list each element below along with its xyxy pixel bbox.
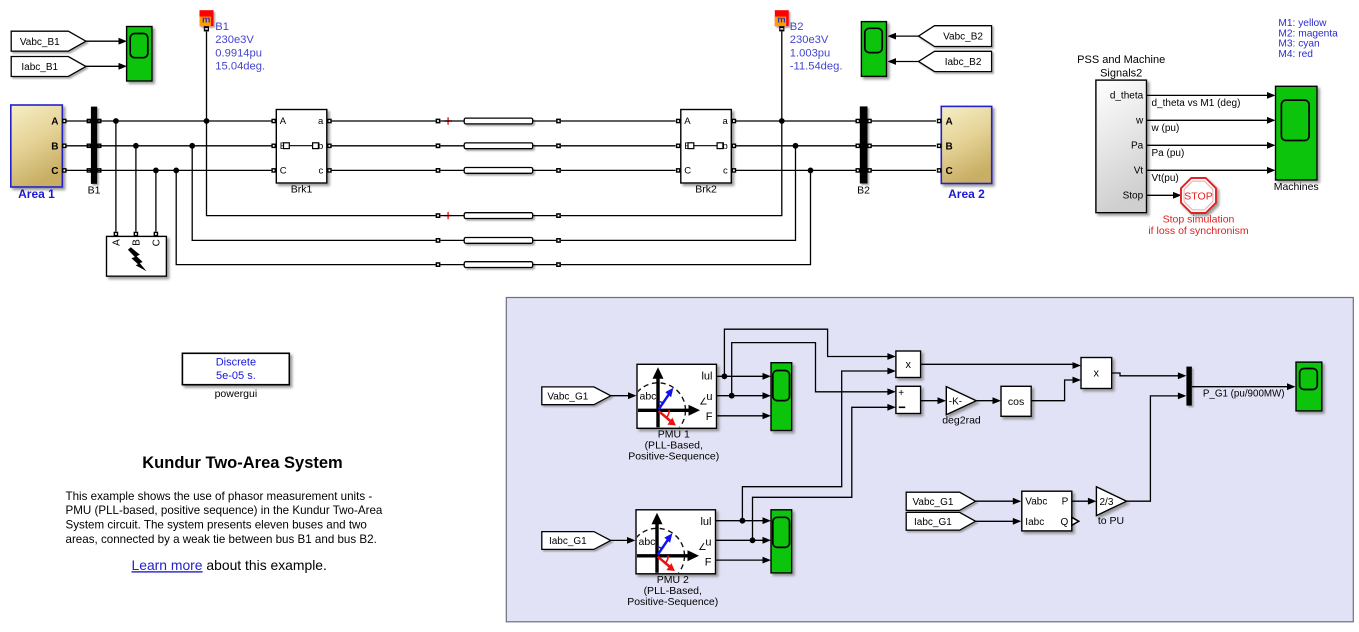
transmission line right port <box>556 238 561 243</box>
bus B2 port <box>856 168 861 173</box>
svg-text:c: c <box>723 166 728 177</box>
transmission line left port <box>436 168 441 173</box>
svg-text:powergui: powergui <box>215 388 258 400</box>
block Area 2 <box>941 106 991 183</box>
svg-text:Brk1: Brk1 <box>291 184 313 196</box>
Brk1 input port 1 <box>271 119 276 124</box>
wire sum to gain deg2rad <box>921 400 939 402</box>
svg-text:Vt(pu): Vt(pu) <box>1152 173 1179 184</box>
svg-text:Learn more about this example.: Learn more about this example. <box>132 557 327 573</box>
svg-text:Discrete: Discrete <box>216 357 256 369</box>
svg-text:x: x <box>1094 368 1100 380</box>
wire Brk1 b to line1 <box>332 145 436 147</box>
svg-text:C: C <box>684 166 691 177</box>
wire Iabc_B2 to scope <box>895 61 919 63</box>
wire mux to scope P_G1 <box>1192 386 1288 388</box>
wire fault C drop <box>155 170 157 231</box>
goto tag Vabc_B1 <box>11 31 86 51</box>
wire m B2 to phase a <box>781 31 783 121</box>
svg-text:Stop simulation: Stop simulation <box>1163 214 1235 226</box>
svg-text:15.04deg.: 15.04deg. <box>215 61 265 73</box>
wire Vabc_G1 to PQ block <box>976 500 1014 502</box>
svg-text:P: P <box>1062 497 1069 508</box>
wire PMU2 lul to product1 <box>742 371 888 521</box>
wire PMU2 F to scope <box>716 559 764 561</box>
svg-text:abc: abc <box>640 391 657 403</box>
svg-text:2/3: 2/3 <box>1100 497 1114 508</box>
wire line1 b to Brk2 <box>561 145 676 147</box>
junction phase A fault <box>113 118 119 124</box>
svg-text:Vabc: Vabc <box>1025 497 1047 508</box>
svg-text:C: C <box>51 166 58 177</box>
Brk2 input port 2 <box>676 144 681 149</box>
svg-text:c: c <box>319 166 324 177</box>
svg-text:Machines: Machines <box>1274 181 1319 193</box>
block Brk2 <box>681 110 732 184</box>
bus B2 port <box>856 144 861 149</box>
svg-text:-11.54deg.: -11.54deg. <box>790 61 843 73</box>
goto tag Vabc_B2 <box>919 26 992 47</box>
svg-text:B: B <box>132 239 143 246</box>
svg-text:deg2rad: deg2rad <box>942 414 981 426</box>
Brk1 input port 2 <box>271 144 276 149</box>
svg-text:P_G1 (pu/900MW): P_G1 (pu/900MW) <box>1203 388 1285 399</box>
wire Brk1 a to line1 <box>332 120 436 122</box>
block cos <box>1001 386 1031 416</box>
gain 2/3 to PU <box>1096 487 1126 516</box>
junction PMU1 lul <box>722 373 728 379</box>
wire line1 c to Brk2 <box>561 169 676 171</box>
svg-text:C: C <box>280 166 287 177</box>
svg-text:x: x <box>905 359 911 371</box>
goto tag Iabc_G1 <box>542 532 611 550</box>
svg-text:Brk2: Brk2 <box>695 184 717 196</box>
svg-text:C: C <box>946 166 953 177</box>
svg-text:Iabc_G1: Iabc_G1 <box>549 536 587 547</box>
svg-text:STOP: STOP <box>1184 190 1212 202</box>
wire phase A Area1-B1-Brk1 <box>67 120 273 122</box>
block Brk1 <box>276 110 327 184</box>
port A of Area 1 <box>62 119 67 124</box>
wire through line <box>441 169 465 171</box>
gain deg2rad <box>946 387 976 415</box>
transmission line left port <box>436 213 441 218</box>
transmission line right port <box>556 213 561 218</box>
svg-text:Vabc_B1: Vabc_B1 <box>20 37 60 48</box>
svg-text:Vabc_G1: Vabc_G1 <box>912 497 953 508</box>
Brk2 output port 2 <box>732 144 737 149</box>
svg-text:A: A <box>112 239 123 246</box>
svg-text:PSS and Machine: PSS and Machine <box>1077 54 1165 66</box>
port C of Area 1 <box>62 168 67 173</box>
svg-text:B1: B1 <box>88 185 101 197</box>
wire PMU2 u to sum minus <box>753 407 889 540</box>
wire Vabc_G1 to PMU1 <box>611 395 629 397</box>
wire line2 b to B2 <box>561 146 796 241</box>
wire PSS Stop to STOP block <box>1147 194 1174 196</box>
svg-text:Vabc_G1: Vabc_G1 <box>547 391 588 402</box>
svg-text:Pa: Pa <box>1131 141 1144 152</box>
svg-text:M4: red: M4: red <box>1278 49 1313 60</box>
lightning bolt icon <box>128 247 147 271</box>
svg-text:a: a <box>318 116 324 127</box>
wire Brk2 a to B2 bus <box>736 120 858 122</box>
svg-text:m: m <box>777 14 785 25</box>
wire through line <box>441 120 465 122</box>
svg-text:1.003pu: 1.003pu <box>790 47 830 59</box>
port of m B2 <box>779 26 784 31</box>
wire Iabc_B1 to scope B1 <box>86 65 119 67</box>
svg-text:Iabc_G1: Iabc_G1 <box>914 517 952 528</box>
svg-text:230e3V: 230e3V <box>790 34 829 46</box>
junction c line2 <box>808 168 814 174</box>
wire PSS Pa to Machines scope <box>1147 144 1268 146</box>
transmission line segment <box>464 262 533 268</box>
svg-text:Iabc_B2: Iabc_B2 <box>945 57 982 68</box>
fault port C <box>154 232 159 237</box>
transmission line segment <box>464 168 533 174</box>
transmission line segment <box>464 118 533 124</box>
svg-text:A: A <box>280 116 287 127</box>
svg-text:A: A <box>946 117 953 128</box>
svg-text:w: w <box>1135 116 1144 127</box>
junction phase C fault <box>153 168 159 174</box>
transmission line right port <box>556 168 561 173</box>
scope PMU1 <box>771 363 792 431</box>
svg-text:∠: ∠ <box>699 397 708 408</box>
Brk2 output port 1 <box>732 119 737 124</box>
transmission line right port <box>556 262 561 267</box>
svg-text:C: C <box>152 239 163 246</box>
measurement block m B2 <box>775 10 789 26</box>
svg-text:0.9914pu: 0.9914pu <box>215 47 262 59</box>
wire Brk1 c to line1 <box>332 169 436 171</box>
wire through line <box>441 145 465 147</box>
wire PSS d_theta to Machines scope <box>1147 94 1268 96</box>
Brk2 input port 1 <box>676 119 681 124</box>
transmission line left port <box>436 238 441 243</box>
bus B1 port <box>87 168 92 173</box>
wire phase B Area1-B1-Brk1 <box>67 145 273 147</box>
svg-text:lul: lul <box>701 370 712 382</box>
svg-text:Signals2: Signals2 <box>1100 67 1142 79</box>
svg-text:B1: B1 <box>215 21 229 33</box>
svg-text:abc: abc <box>639 536 656 548</box>
wire through line <box>441 239 465 241</box>
junction a line2 <box>779 118 785 124</box>
panel PMU measurement subsystem area <box>506 298 1353 622</box>
wire PMU1 lul to product1 <box>724 329 888 376</box>
ports of Area 2 <box>937 119 942 124</box>
Brk1 output port 1 <box>327 119 332 124</box>
junction PMU2 u <box>750 537 756 543</box>
svg-text:Pa (pu): Pa (pu) <box>1152 148 1185 159</box>
svg-text:F: F <box>706 411 713 423</box>
svg-text:This example shows the use of: This example shows the use of phasor mea… <box>66 490 373 503</box>
svg-text:a: a <box>723 116 729 127</box>
svg-text:Q: Q <box>1061 517 1069 528</box>
wire gain to cos <box>976 400 993 402</box>
fault port B <box>134 232 139 237</box>
svg-text:if loss of synchronism: if loss of synchronism <box>1148 225 1249 237</box>
wire PMU1 u to scope <box>717 395 764 397</box>
block STOP simulation <box>1181 178 1216 213</box>
svg-text:areas, connected by a weak tie: areas, connected by a weak tie between b… <box>66 533 377 546</box>
junction phase B line2 <box>189 143 195 149</box>
bus bar B2 <box>860 106 868 183</box>
svg-text:Iabc_B1: Iabc_B1 <box>21 62 58 73</box>
wire line2 phase C branch <box>176 170 435 264</box>
Brk2 input port 3 <box>676 168 681 173</box>
wire PMU2 lul to scope <box>716 520 764 522</box>
measurement block m B1 <box>200 10 214 26</box>
wire fault B drop <box>135 146 137 232</box>
bus bar B1 <box>91 107 97 184</box>
wire Brk2 c to B2 bus <box>736 169 858 171</box>
wire through line <box>441 264 465 266</box>
Brk2 output port 3 <box>732 168 737 173</box>
goto tag Iabc_G1 power <box>906 512 975 530</box>
wire line2 c to B2 <box>561 170 811 264</box>
wire PSS Vt to Machines scope <box>1147 169 1268 171</box>
wire PMU1 u to sum plus <box>732 343 889 396</box>
transmission line segment <box>464 213 533 219</box>
scope Machines <box>1276 86 1318 180</box>
svg-text:d_theta: d_theta <box>1110 91 1144 102</box>
transmission line left port <box>436 262 441 267</box>
goto tag Iabc_B2 <box>919 51 992 71</box>
block product2 x <box>1081 358 1112 389</box>
block product1 x <box>896 351 921 378</box>
fault port A <box>114 232 119 237</box>
svg-text:5e-05 s.: 5e-05 s. <box>216 370 256 382</box>
transmission line segment <box>464 238 533 244</box>
port B of Area 1 <box>62 144 67 149</box>
svg-text:B: B <box>51 141 58 152</box>
svg-text:Positive-Sequence): Positive-Sequence) <box>627 596 718 608</box>
junction phase C line2 <box>173 168 179 174</box>
junction PMU2 lul <box>740 518 746 524</box>
svg-text:B2: B2 <box>790 21 804 33</box>
svg-text:B: B <box>946 141 953 152</box>
block PMU 2 <box>636 510 716 574</box>
svg-text:Iabc: Iabc <box>1025 517 1044 528</box>
transmission line left port <box>436 143 441 148</box>
goto tag Vabc_G1 power <box>906 492 975 510</box>
svg-text:∠: ∠ <box>698 542 707 553</box>
svg-text:System circuit. The system pre: System circuit. The system presents elev… <box>66 519 367 532</box>
wire phase C Area1-B1-Brk1 <box>67 169 273 171</box>
wire PSS w to Machines scope <box>1147 119 1268 121</box>
measurement + mark <box>444 117 451 124</box>
scope B2 signals <box>861 22 886 77</box>
Brk1 output port 2 <box>327 144 332 149</box>
goto tag Vabc_G1 <box>542 387 611 405</box>
svg-text:Stop: Stop <box>1123 191 1144 202</box>
goto tag Iabc_B1 <box>11 57 86 77</box>
block powergui <box>182 353 289 384</box>
wire PMU2 u to scope <box>716 539 764 541</box>
block PQ measurement <box>1022 491 1072 531</box>
svg-text:w (pu): w (pu) <box>1151 123 1180 134</box>
wire PMU1 F to scope <box>717 415 764 417</box>
svg-text:+: + <box>898 388 904 399</box>
svg-text:to PU: to PU <box>1098 515 1124 527</box>
unconnected port Q <box>1072 517 1079 525</box>
wire through line <box>441 215 465 217</box>
mux P_G1 <box>1186 367 1192 406</box>
wire PMU1 lul to scope <box>717 375 764 377</box>
transmission line left port <box>436 119 441 124</box>
svg-text:m: m <box>202 14 210 25</box>
wire B2 to Area2 B <box>872 145 937 147</box>
wire line2 a to B2 <box>561 121 782 216</box>
wire Vabc_B1 to scope B1 <box>86 40 119 42</box>
Brk1 input port 3 <box>271 168 276 173</box>
block sum <box>896 386 921 413</box>
block PSS and Machine Signals2 <box>1096 80 1147 213</box>
junction b line2 <box>793 143 799 149</box>
scope B1 signals <box>127 27 152 82</box>
block Area 1 <box>11 105 63 187</box>
wire Iabc_G1 to PMU2 <box>611 539 628 541</box>
port of m B1 <box>204 26 209 31</box>
bus B1 port <box>87 119 92 124</box>
wire line2 phase B branch <box>192 146 435 241</box>
scope P_G1 <box>1296 362 1322 411</box>
svg-text:Vabc_B2: Vabc_B2 <box>943 32 983 43</box>
block three-phase fault <box>107 236 167 276</box>
transmission line segment <box>464 143 533 149</box>
svg-text:Positive-Sequence): Positive-Sequence) <box>628 451 719 463</box>
svg-text:Kundur Two-Area System: Kundur Two-Area System <box>142 454 342 472</box>
junction phase B fault <box>133 143 139 149</box>
wire line2 phase A branch <box>207 121 436 216</box>
svg-text:Area 1: Area 1 <box>18 187 55 201</box>
measurement + mark <box>444 212 451 219</box>
wire cos to product2 <box>1031 380 1073 401</box>
transmission line right port <box>556 143 561 148</box>
svg-text:Vt: Vt <box>1134 166 1144 177</box>
transmission line right port <box>556 119 561 124</box>
scope PMU2 <box>771 510 792 573</box>
wire fault A drop <box>115 121 117 232</box>
svg-text:Area 2: Area 2 <box>948 187 985 201</box>
wire B2 to Area2 A <box>872 120 937 122</box>
wire line1 a to Brk2 <box>561 120 676 122</box>
wire 2/3 to mux <box>1127 396 1179 501</box>
svg-text:cos: cos <box>1008 396 1024 408</box>
wire PQ P to gain 2/3 <box>1072 500 1089 502</box>
svg-text:A: A <box>51 117 58 128</box>
wire m B1 to phase A <box>206 31 208 121</box>
junction PMU1 u <box>729 393 735 399</box>
block PMU 1 <box>637 364 717 428</box>
bus B1 port <box>87 144 92 149</box>
junction phase A line2 <box>204 118 210 124</box>
svg-text:A: A <box>684 116 691 127</box>
wire Iabc_G1 to PQ block <box>976 520 1014 522</box>
svg-text:F: F <box>705 556 712 568</box>
svg-text:B2: B2 <box>857 185 870 197</box>
svg-text:PMU (PLL-based, positive seque: PMU (PLL-based, positive sequence) in th… <box>66 504 383 517</box>
svg-text:lul: lul <box>700 516 711 528</box>
bus B2 port <box>856 119 861 124</box>
svg-text:230e3V: 230e3V <box>215 34 254 46</box>
wire product2 to mux <box>1112 373 1179 376</box>
Brk1 output port 3 <box>327 168 332 173</box>
wire Brk2 b to B2 bus <box>736 145 858 147</box>
wire Vabc_B2 to scope <box>895 35 919 37</box>
svg-text:-K-: -K- <box>949 396 962 407</box>
svg-text:d_theta vs M1 (deg): d_theta vs M1 (deg) <box>1152 98 1241 109</box>
wire product1 to product2 <box>921 364 1074 365</box>
wire B2 to Area2 C <box>872 169 937 171</box>
